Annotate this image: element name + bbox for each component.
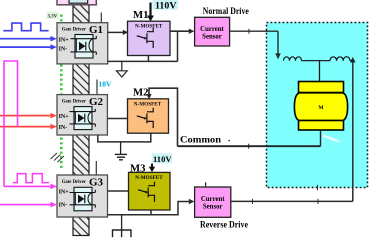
svg-text:Gate Driver: Gate Driver bbox=[62, 98, 87, 104]
svg-text:M2: M2 bbox=[133, 87, 149, 99]
earth ground bbox=[115, 142, 127, 160]
svg-text:N-MOSFET: N-MOSFET bbox=[135, 175, 163, 181]
svg-text:Current: Current bbox=[200, 26, 224, 33]
wire M3 source drop bbox=[150, 210, 152, 215]
gate driver G3 bbox=[57, 175, 108, 217]
inductor L1 bbox=[284, 57, 331, 61]
svg-text:M: M bbox=[318, 105, 324, 111]
gate driver G1 bbox=[57, 23, 108, 64]
wire G2 to M2 gate bbox=[107, 118, 128, 120]
wire IN- G3 (magenta) bbox=[0, 202, 57, 208]
svg-text:IN-: IN- bbox=[59, 47, 68, 53]
svg-text:IN+: IN+ bbox=[59, 189, 70, 195]
ground (triangle) bbox=[116, 61, 127, 77]
n-mosfet M1 bbox=[128, 21, 171, 55]
stub above G3 bbox=[95, 161, 97, 175]
wire IN- G1 bbox=[0, 44, 57, 50]
magenta feedback loop wire bbox=[4, 61, 18, 186]
svg-text:.: . bbox=[228, 134, 230, 144]
hatched mounting column bbox=[73, 5, 89, 236]
svg-text:Current: Current bbox=[201, 196, 225, 203]
wire G3 return to sensor bbox=[108, 199, 195, 215]
break slashes on enable line bbox=[51, 153, 65, 162]
current sensor (reverse) bbox=[195, 182, 231, 217]
svg-text:M1: M1 bbox=[133, 9, 149, 21]
svg-text:IN-: IN- bbox=[59, 125, 68, 131]
wire motor to common bbox=[320, 130, 322, 146]
wire IN- G2 (red) bbox=[0, 124, 57, 130]
svg-text:Common: Common bbox=[180, 135, 221, 145]
n-mosfet M2 bbox=[128, 99, 169, 133]
wire G1 return bbox=[108, 60, 178, 62]
cyan load region (dashed) bbox=[267, 23, 368, 188]
white artifact bbox=[323, 136, 339, 142]
svg-text:Reverse Drive: Reverse Drive bbox=[200, 220, 248, 230]
18V label and stub bbox=[97, 80, 112, 95]
110V arrow into M1 bbox=[147, 3, 154, 22]
svg-text:G3: G3 bbox=[89, 176, 104, 188]
svg-text:18V: 18V bbox=[99, 80, 113, 89]
110V arrow into M3 bbox=[149, 164, 155, 173]
wire IN+ G3 (magenta) bbox=[4, 184, 57, 190]
wire sensor to load (reverse) bbox=[231, 185, 353, 204]
svg-text:N-MOSFET: N-MOSFET bbox=[135, 24, 163, 30]
blue input square wave bbox=[3, 23, 48, 31]
n-mosfet M3 bbox=[129, 172, 171, 210]
svg-text:Gate Driver: Gate Driver bbox=[62, 179, 87, 185]
chassis ground (prongs) bbox=[112, 215, 132, 238]
wire sensor to load region bbox=[230, 29, 281, 60]
gate driver G2 bbox=[57, 95, 107, 135]
svg-text:Normal Drive: Normal Drive bbox=[203, 6, 249, 16]
wire M1 to current sensor bbox=[170, 29, 194, 34]
110V supply label bbox=[153, 0, 179, 10]
wire G1 to M1 gate bbox=[108, 30, 129, 35]
110V supply label (M3) bbox=[152, 153, 173, 163]
svg-text:110V: 110V bbox=[153, 154, 172, 164]
svg-text:N-MOSFET: N-MOSFET bbox=[134, 101, 162, 107]
wire IN+ G1 bbox=[0, 36, 57, 42]
3.3V label bbox=[47, 12, 60, 20]
wire common to M2 drain bbox=[146, 88, 177, 146]
wire IN+ G2 (red) bbox=[0, 113, 57, 119]
current sensor (normal) bbox=[195, 17, 230, 46]
wire stub to G1 top bbox=[100, 13, 102, 23]
wire G3 to M3 gate bbox=[108, 190, 130, 192]
magenta input square wave bbox=[13, 174, 49, 183]
svg-text:110V: 110V bbox=[155, 0, 177, 10]
svg-text:3.3V: 3.3V bbox=[48, 15, 58, 20]
svg-text:Gate Driver: Gate Driver bbox=[62, 27, 87, 33]
wire node to drain rail bbox=[177, 31, 179, 61]
wire M1 source drop bbox=[147, 56, 149, 62]
green dotted enable line bbox=[60, 15, 63, 170]
wire right riser bbox=[350, 57, 356, 202]
svg-text:M3: M3 bbox=[130, 162, 146, 174]
partial driver box at top (cropped) bbox=[57, 0, 96, 5]
svg-text:IN+: IN+ bbox=[59, 37, 70, 43]
svg-text:Sensor: Sensor bbox=[202, 34, 222, 41]
svg-text:IN-: IN- bbox=[59, 202, 68, 208]
wire G2 return to M2 source bbox=[98, 133, 151, 142]
common rail bbox=[178, 144, 321, 149]
svg-text:IN+: IN+ bbox=[59, 114, 70, 120]
wire center tap to motor bbox=[319, 61, 321, 82]
motor M bbox=[294, 82, 347, 131]
svg-text:Sensor: Sensor bbox=[203, 203, 223, 210]
inductor L2 bbox=[330, 57, 354, 61]
